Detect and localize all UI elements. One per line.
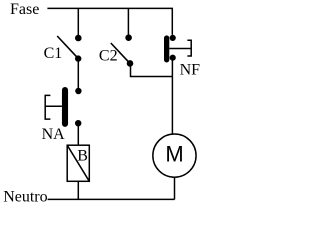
svg-text:NA: NA bbox=[42, 126, 66, 143]
svg-text:Fase: Fase bbox=[10, 1, 39, 18]
svg-text:Neutro: Neutro bbox=[3, 189, 47, 206]
svg-text:B: B bbox=[77, 147, 88, 164]
svg-text:NF: NF bbox=[180, 61, 201, 78]
svg-text:M: M bbox=[165, 142, 183, 167]
svg-text:C1: C1 bbox=[44, 45, 63, 62]
svg-text:C2: C2 bbox=[99, 47, 118, 64]
